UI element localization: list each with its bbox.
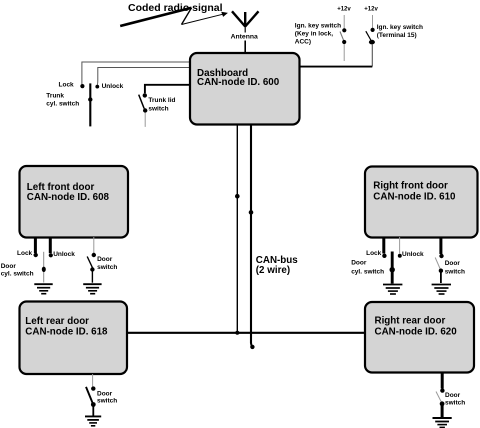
wire: trunk lid switch to dashboard (wire C) [145,85,191,94]
junction dot: CAN wire 1 to rear bus [235,331,239,335]
svg-text:+12v: +12v [337,7,351,13]
LF door cyl switch pivot [42,267,46,272]
RF door cyl switch pivot [390,267,395,272]
svg-text:switch: switch [445,268,465,275]
svg-text:CAN-node ID. 610: CAN-node ID. 610 [373,191,456,202]
CAN bus terminator dot (wire 2 end) [250,345,254,349]
svg-text:switch: switch [97,264,117,271]
trunk lid switch [139,93,148,127]
LF ground (door cyl) [34,284,52,294]
LF door cyl switch lever [43,252,45,283]
svg-text:+12v: +12v [364,7,378,13]
svg-text:Right rear door: Right rear door [375,315,446,326]
RF door cyl switch lever [391,252,394,284]
RR door switch [436,388,445,417]
left front door box, CAN-node ID 608 [20,166,129,238]
svg-text:Trunk: Trunk [46,92,64,99]
svg-text:Unlock: Unlock [53,251,75,258]
CAN bus wire 1 (left) [236,125,238,332]
svg-text:Door: Door [351,259,367,266]
svg-text:Unlock: Unlock [102,83,124,90]
svg-text:Door: Door [97,256,113,263]
svg-text:switch: switch [148,105,168,112]
LF lock wire [34,237,37,253]
RR ground [433,418,452,427]
svg-text:cyl. switch: cyl. switch [351,269,384,276]
trunk cylinder switch: lock contact [80,84,84,88]
LF lock contact [34,253,38,257]
right rear door box, CAN-node ID 620 [365,302,474,373]
svg-text:cyl. switch: cyl. switch [1,271,34,278]
svg-text:ACC): ACC) [295,39,311,46]
svg-text:Door: Door [1,263,17,270]
RF unlock contact [398,254,402,258]
junction dot on CAN wire 2 [249,210,254,215]
RR door switch wire from box [441,373,444,389]
svg-text:Right front door: Right front door [373,181,448,192]
wire: unlock contact to dashboard (wire B) [97,68,190,86]
RF door switch wire from box [439,237,442,254]
svg-text:Ign. key switch: Ign. key switch [377,24,423,31]
LR door switch wire from box [92,374,94,387]
svg-text:Lock: Lock [59,81,75,88]
svg-text:Trunk lid: Trunk lid [148,97,175,104]
svg-text:CAN-node ID. 620: CAN-node ID. 620 [375,326,458,337]
LR door switch [86,386,96,415]
dashboard ECU box, CAN-node ID 600 [190,53,300,125]
RF lock contact [382,254,386,258]
right front door box, CAN-node ID 610 [365,167,478,238]
svg-text:Door: Door [97,390,113,397]
antenna lead wire [244,27,246,33]
svg-text:Left rear door: Left rear door [25,316,89,327]
RF ground (door cyl) [383,285,402,295]
svg-text:Ign. key switch: Ign. key switch [295,22,341,29]
svg-text:(2 wire): (2 wire) [256,265,290,276]
LF ground (door switch) [83,284,101,294]
wire: rear bus (left rear to right rear door) [127,332,365,334]
LF unlock wire [49,237,52,253]
svg-text:switch: switch [445,399,465,406]
antenna [232,11,259,27]
wire: lock contact to dashboard (wire A) [82,62,190,85]
svg-text:(Key in lock,: (Key in lock, [295,30,333,37]
svg-text:(Terminal 15): (Terminal 15) [377,32,417,39]
LF door switch wire from box [93,237,95,253]
RF lock wire [382,237,385,254]
svg-text:Antenna: Antenna [231,33,258,40]
LF door switch [87,253,96,283]
ign. key switch S2 (Terminal 15) [366,15,375,67]
trunk cylinder switch: unlock contact [95,85,99,89]
svg-text:Lock: Lock [17,250,33,257]
RF unlock wire [399,237,401,254]
junction dot on CAN wire 1 [235,194,240,199]
wire: dashboard to ignition switches [299,66,372,68]
svg-text:Lock: Lock [366,250,382,257]
left rear door box, CAN-node ID 618 [20,302,128,375]
svg-text:switch: switch [97,398,117,405]
LF unlock contact [49,253,53,257]
ign. key switch S1 (Key in lock, ACC) [340,15,346,61]
svg-text:CAN-node ID. 600: CAN-node ID. 600 [197,77,280,88]
LR ground [85,416,101,425]
svg-text:CAN-node ID. 608: CAN-node ID. 608 [27,192,110,203]
trunk cylinder switch pivot [88,97,92,101]
svg-text:Door: Door [445,392,461,399]
CAN bus wire 2 (right) [251,125,252,347]
svg-text:Unlock: Unlock [402,251,424,258]
radio signal arrow (zigzag) [120,8,228,26]
RF ground (door switch) [432,285,451,295]
svg-text:CAN-node ID. 618: CAN-node ID. 618 [25,326,108,337]
trunk cylinder switch lever [89,83,91,126]
RF door switch [435,254,443,283]
svg-text:Door: Door [445,260,461,267]
svg-text:cyl. switch: cyl. switch [46,101,79,108]
